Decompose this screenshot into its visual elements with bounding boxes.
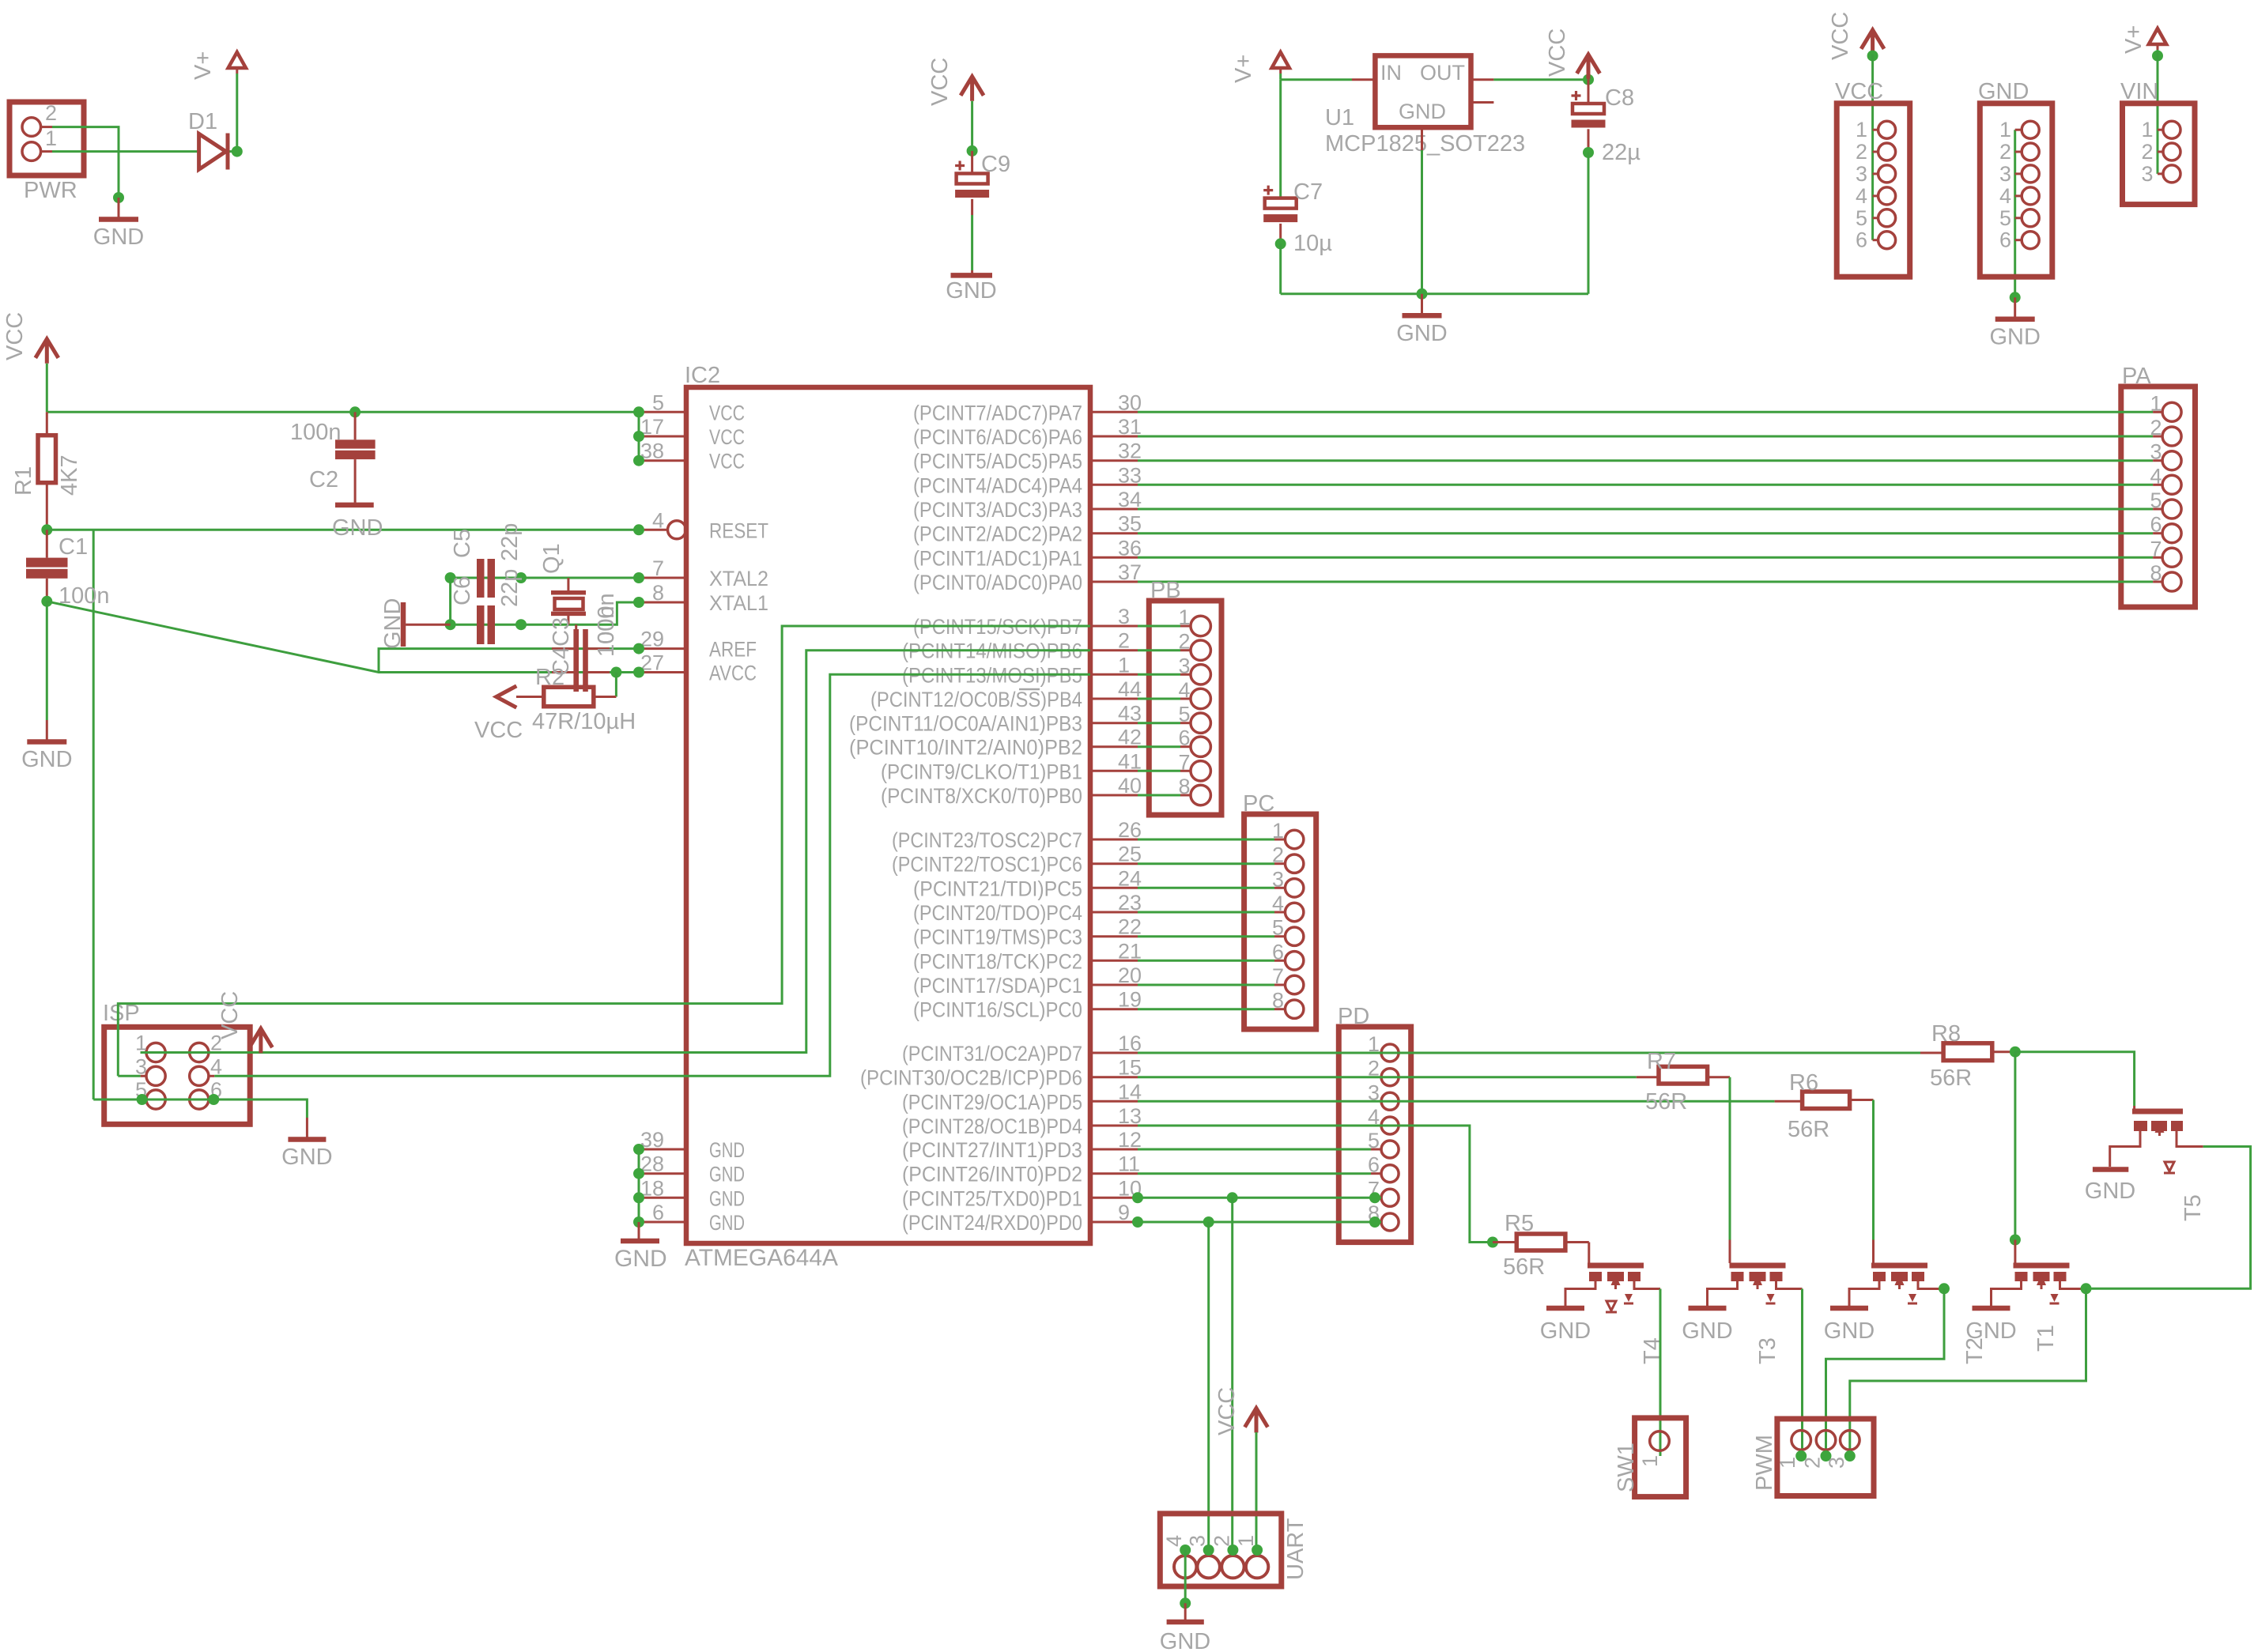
pin 4 RESET xyxy=(639,529,667,531)
ground xyxy=(2093,1167,2128,1172)
svg-text:ATMEGA644A: ATMEGA644A xyxy=(685,1245,838,1271)
svg-text:PA: PA xyxy=(2122,364,2151,389)
connector PC header xyxy=(1244,814,1316,1029)
overline SS xyxy=(1019,688,1040,691)
svg-text:5: 5 xyxy=(652,390,664,414)
svg-text:5: 5 xyxy=(1999,206,2011,230)
junction xyxy=(967,145,978,157)
svg-text:(PCINT20/TDO)PC4: (PCINT20/TDO)PC4 xyxy=(913,901,1082,925)
svg-text:GND: GND xyxy=(1682,1318,1732,1344)
pin 14 PD5 xyxy=(1090,1100,1138,1103)
svg-text:R5: R5 xyxy=(1505,1211,1534,1236)
pin 18 GND xyxy=(639,1197,686,1199)
junction xyxy=(1369,1192,1380,1203)
junction xyxy=(445,619,456,630)
svg-text:5: 5 xyxy=(1856,206,1867,230)
junction xyxy=(1939,1283,1950,1294)
svg-text:(PCINT17/SDA)PC1: (PCINT17/SDA)PC1 xyxy=(913,974,1082,998)
wire xyxy=(1871,55,1874,240)
supply VCC at UART xyxy=(1245,1409,1268,1433)
wire VCC down xyxy=(46,364,48,413)
supply VCC xyxy=(1577,55,1600,79)
svg-text:2: 2 xyxy=(1801,1457,1825,1469)
svg-text:56R: 56R xyxy=(1645,1089,1687,1115)
junction xyxy=(1583,74,1594,85)
svg-text:GND: GND xyxy=(281,1145,332,1170)
svg-text:(PCINT7/ADC7)PA7: (PCINT7/ADC7)PA7 xyxy=(913,401,1082,424)
transistor T4 xyxy=(1588,1263,1644,1269)
pin 10 PD1 xyxy=(1090,1197,1138,1199)
svg-text:IN: IN xyxy=(1380,61,1402,85)
svg-text:100n: 100n xyxy=(594,605,619,657)
svg-text:PC: PC xyxy=(1243,791,1274,817)
pin U1 TAB xyxy=(1471,101,1494,104)
svg-text:AREF: AREF xyxy=(709,638,757,662)
wire C5 C6 gnd link xyxy=(449,578,451,624)
crystal Q1 xyxy=(567,578,569,590)
wire ISP MISO to PB6 xyxy=(141,651,1090,1053)
svg-text:(PCINT6/ADC6)PA6: (PCINT6/ADC6)PA6 xyxy=(913,425,1082,449)
pin 24 PC5 xyxy=(1090,887,1138,889)
svg-text:(PCINT8/XCK0/T0)PB0: (PCINT8/XCK0/T0)PB0 xyxy=(881,784,1082,808)
svg-text:GND: GND xyxy=(1978,79,2029,104)
pin 41 PB1 xyxy=(1090,770,1138,772)
wire AGND diagonal xyxy=(47,602,639,673)
svg-text:(PCINT5/ADC5)PA5: (PCINT5/ADC5)PA5 xyxy=(913,450,1082,473)
svg-text:3: 3 xyxy=(1999,162,2011,186)
wire T1 to PWM3 xyxy=(1850,1288,2086,1456)
pin 20 PC1 xyxy=(1090,984,1138,986)
pin 2 PB6 xyxy=(1090,649,1138,651)
pin 34 PA3 xyxy=(1090,508,1138,511)
svg-text:PWR: PWR xyxy=(24,178,77,203)
wire PWR pin2 to GND xyxy=(52,127,119,198)
junction xyxy=(515,619,527,630)
resistor R5 56R xyxy=(1493,1241,1516,1243)
wires PD net xyxy=(1138,1148,1371,1151)
pin 3 PB7 xyxy=(1090,625,1138,628)
connector PWR xyxy=(9,102,84,175)
connector VIN header xyxy=(2123,104,2195,205)
capacitor C9 xyxy=(971,151,973,174)
junction xyxy=(633,1144,644,1155)
junction xyxy=(633,524,644,535)
ground xyxy=(638,1222,640,1239)
pin 8 XTAL1 xyxy=(639,602,686,604)
svg-text:4: 4 xyxy=(1999,184,2011,208)
wire R7 to T3 gate xyxy=(1729,1077,1731,1240)
junction xyxy=(1417,289,1428,300)
pin U1 GND wire xyxy=(1421,127,1423,150)
wire T4 to SW1 xyxy=(1659,1289,1662,1457)
wire C1 to GND xyxy=(46,602,48,720)
ground xyxy=(1689,1306,1727,1311)
svg-text:V+: V+ xyxy=(1231,55,1256,83)
svg-text:(PCINT3/ADC3)PA3: (PCINT3/ADC3)PA3 xyxy=(913,498,1082,522)
svg-text:1: 1 xyxy=(1118,653,1130,677)
svg-text:(PCINT25/TXD0)PD1: (PCINT25/TXD0)PD1 xyxy=(902,1186,1082,1210)
junction xyxy=(2010,1235,2021,1246)
svg-text:(PCINT22/TOSC1)PC6: (PCINT22/TOSC1)PC6 xyxy=(892,853,1082,877)
svg-text:1: 1 xyxy=(1776,1457,1799,1469)
svg-text:VCC: VCC xyxy=(1828,12,1853,60)
transistor T5 xyxy=(2132,1109,2183,1115)
svg-text:VCC: VCC xyxy=(709,425,745,449)
svg-text:56R: 56R xyxy=(1788,1117,1829,1142)
pin 23 PC4 xyxy=(1090,911,1138,914)
supply GND symbol wire xyxy=(2014,130,2016,297)
svg-text:GND: GND xyxy=(1540,1318,1591,1344)
svg-text:4K7: 4K7 xyxy=(57,454,82,496)
wire PD6 to R7 xyxy=(1138,1076,1637,1078)
svg-text:GND: GND xyxy=(709,1138,745,1162)
svg-text:GND: GND xyxy=(1396,321,1447,346)
capacitor C1 xyxy=(46,530,48,557)
svg-text:(PCINT24/RXD0)PD0: (PCINT24/RXD0)PD0 xyxy=(902,1211,1082,1235)
svg-text:RESET: RESET xyxy=(709,519,768,542)
svg-text:UART: UART xyxy=(1283,1518,1308,1580)
pin 11 PD2 xyxy=(1090,1172,1138,1175)
pin 30 PA7 xyxy=(1090,411,1138,413)
svg-text:1: 1 xyxy=(1234,1535,1258,1547)
wire PD1 TXD xyxy=(1138,1197,1381,1199)
svg-text:GND: GND xyxy=(614,1246,667,1272)
capacitor C8 xyxy=(1588,80,1590,104)
wire XTAL1 jog xyxy=(451,602,639,624)
ground xyxy=(971,270,973,273)
svg-text:(PCINT27/INT1)PD3: (PCINT27/INT1)PD3 xyxy=(902,1138,1082,1162)
supply V+ xyxy=(2149,28,2166,44)
wire ISP MOSI to PB5 xyxy=(214,674,1090,1076)
capacitor C5 xyxy=(477,559,485,598)
ground xyxy=(1546,1306,1584,1311)
svg-text:VCC: VCC xyxy=(474,718,523,743)
svg-text:(PCINT29/OC1A)PD5: (PCINT29/OC1A)PD5 xyxy=(902,1090,1082,1114)
supply VCC xyxy=(961,77,984,101)
capacitor C6 xyxy=(477,605,485,644)
svg-text:9: 9 xyxy=(1118,1201,1130,1224)
ground xyxy=(118,198,120,217)
pin 17 VCC xyxy=(639,436,686,438)
svg-text:GND: GND xyxy=(1160,1629,1210,1652)
svg-text:VCC: VCC xyxy=(1214,1387,1240,1435)
svg-text:8: 8 xyxy=(652,581,664,605)
svg-text:(PCINT2/ADC2)PA2: (PCINT2/ADC2)PA2 xyxy=(913,522,1082,546)
svg-text:GND: GND xyxy=(2085,1179,2135,1204)
resistor R8 56R xyxy=(1943,1043,1992,1061)
pin 1 PB5 xyxy=(1090,673,1138,676)
pin 27 AVCC xyxy=(639,671,686,673)
pin U1 OUT xyxy=(1471,78,1494,81)
svg-text:IC2: IC2 xyxy=(685,363,720,388)
wire AREF xyxy=(379,649,639,673)
pin 35 PA2 xyxy=(1090,532,1138,534)
svg-text:100n: 100n xyxy=(290,420,342,445)
supply VCC at ISP xyxy=(249,1028,272,1053)
junction xyxy=(1180,1545,1191,1556)
svg-text:(PCINT11/OC0A/AIN1)PB3: (PCINT11/OC0A/AIN1)PB3 xyxy=(849,712,1082,736)
pin 36 PA1 xyxy=(1090,556,1138,559)
pin 43 PB3 xyxy=(1090,722,1138,724)
wires PA net xyxy=(1138,411,2153,413)
wire OUT to VCC xyxy=(1493,78,1588,81)
connector PD header xyxy=(1338,1027,1410,1243)
junction xyxy=(1795,1450,1807,1462)
svg-text:4: 4 xyxy=(1162,1535,1186,1547)
junction xyxy=(1867,51,1878,62)
wire ISP SCK to PB7 xyxy=(118,626,1090,1076)
wire RXD to UART xyxy=(1207,1222,1210,1550)
svg-text:22µ: 22µ xyxy=(1602,140,1640,165)
svg-text:1: 1 xyxy=(45,126,57,150)
junction xyxy=(1583,147,1594,158)
svg-text:C5: C5 xyxy=(450,529,475,558)
svg-text:3: 3 xyxy=(1856,162,1867,186)
svg-text:7: 7 xyxy=(652,556,664,580)
resistor R7 56R xyxy=(1659,1066,1708,1084)
pin 7 XTAL2 xyxy=(639,577,686,579)
junction xyxy=(610,667,621,678)
svg-text:(PCINT18/TCK)PC2: (PCINT18/TCK)PC2 xyxy=(913,949,1082,973)
wires PC net xyxy=(1138,839,1274,841)
regulator U1 xyxy=(1375,55,1471,127)
junction xyxy=(1227,1192,1238,1203)
svg-text:GND: GND xyxy=(709,1186,745,1210)
ground xyxy=(2014,297,2016,317)
ground xyxy=(306,1118,308,1137)
junction xyxy=(349,406,361,417)
junction xyxy=(2081,1283,2092,1294)
wire bottom GND rail xyxy=(1281,292,1588,295)
svg-text:VCC: VCC xyxy=(709,450,745,473)
svg-text:MCP1825_SOT223: MCP1825_SOT223 xyxy=(1325,131,1525,157)
capacitor C2 xyxy=(354,412,357,439)
svg-text:GND: GND xyxy=(21,747,72,772)
svg-text:2: 2 xyxy=(1856,140,1867,164)
svg-text:(PCINT26/INT0)PD2: (PCINT26/INT0)PD2 xyxy=(902,1163,1082,1186)
pin 42 PB2 xyxy=(1090,745,1138,748)
svg-text:47R/10µH: 47R/10µH xyxy=(532,709,636,734)
svg-text:(PCINT23/TOSC2)PC7: (PCINT23/TOSC2)PC7 xyxy=(892,828,1082,852)
svg-text:VCC: VCC xyxy=(709,401,745,424)
svg-text:VCC: VCC xyxy=(217,991,243,1039)
junction xyxy=(633,1216,644,1228)
wire V+ to IN and C7 xyxy=(1279,74,1282,80)
wire xyxy=(971,215,973,270)
svg-text:(PCINT0/ADC0)PA0: (PCINT0/ADC0)PA0 xyxy=(913,571,1082,594)
svg-text:1: 1 xyxy=(1856,118,1867,141)
pin 15 PD6 xyxy=(1090,1076,1138,1078)
svg-text:C6: C6 xyxy=(450,576,475,605)
svg-text:T3: T3 xyxy=(1755,1337,1780,1364)
ground rotated xyxy=(406,624,451,626)
junction xyxy=(113,192,124,203)
svg-text:56R: 56R xyxy=(1503,1254,1545,1280)
svg-text:PD: PD xyxy=(1338,1004,1369,1029)
wire XTAL2 net xyxy=(451,577,639,579)
svg-text:6: 6 xyxy=(1999,228,2011,252)
junction xyxy=(1821,1450,1832,1462)
svg-text:6: 6 xyxy=(652,1201,664,1224)
wire D1 cathode to V+ xyxy=(230,150,237,153)
wire R6 to T2 gate xyxy=(1872,1100,1875,1240)
pin 22 PC3 xyxy=(1090,935,1138,937)
junction xyxy=(1369,1216,1380,1228)
resistor R1 xyxy=(46,412,48,435)
svg-text:T5: T5 xyxy=(2180,1194,2206,1221)
junction xyxy=(1132,1192,1143,1203)
transistor T2 xyxy=(1871,1263,1927,1269)
svg-text:AVCC: AVCC xyxy=(709,662,757,685)
wires PB net xyxy=(1138,625,1180,628)
connector PB header xyxy=(1149,601,1221,815)
svg-text:XTAL2: XTAL2 xyxy=(709,567,768,590)
pin 26 PC7 xyxy=(1090,839,1138,841)
svg-text:(PCINT19/TMS)PC3: (PCINT19/TMS)PC3 xyxy=(913,926,1082,949)
svg-text:VCC: VCC xyxy=(1545,28,1570,77)
svg-text:PWM: PWM xyxy=(1752,1435,1777,1491)
connector ISP xyxy=(104,1027,251,1124)
wire GND pins link xyxy=(638,1149,640,1222)
svg-text:V+: V+ xyxy=(2121,25,2146,54)
svg-text:1: 1 xyxy=(2141,118,2153,141)
svg-text:1: 1 xyxy=(1638,1455,1662,1467)
wire ISP GND row xyxy=(93,1099,307,1118)
svg-text:GND: GND xyxy=(1399,100,1446,123)
svg-text:GND: GND xyxy=(380,598,406,649)
svg-text:(PCINT10/INT2/AIN0)PB2: (PCINT10/INT2/AIN0)PB2 xyxy=(849,736,1082,760)
pin 38 VCC xyxy=(639,459,686,462)
wire xyxy=(971,101,973,151)
junction xyxy=(1275,238,1286,249)
pin 29 AREF xyxy=(639,647,686,650)
connector UART xyxy=(1160,1514,1282,1586)
pin 37 PA0 xyxy=(1090,581,1138,583)
svg-text:T1: T1 xyxy=(2033,1325,2059,1352)
junction xyxy=(633,643,644,654)
svg-text:OUT: OUT xyxy=(1420,61,1465,85)
capacitor C3 xyxy=(573,629,579,692)
svg-text:GND: GND xyxy=(332,515,383,541)
svg-text:3: 3 xyxy=(1118,605,1130,628)
pin 28 GND xyxy=(639,1172,686,1175)
ground xyxy=(46,720,48,740)
connector VCC header xyxy=(1837,104,1910,277)
pin 13 PD4 xyxy=(1090,1125,1138,1127)
wire VCC pins link xyxy=(638,412,640,460)
supply VCC xyxy=(1861,30,1884,55)
svg-text:(PCINT28/OC1B)PD4: (PCINT28/OC1B)PD4 xyxy=(902,1115,1082,1138)
wire PD7 to R8 xyxy=(1138,1052,1920,1054)
svg-text:V+: V+ xyxy=(191,51,216,80)
pin 21 PC2 xyxy=(1090,960,1138,962)
pin 40 PB0 xyxy=(1090,794,1138,797)
transistor T1 xyxy=(2014,1263,2070,1269)
svg-text:(PCINT4/ADC4)PA4: (PCINT4/ADC4)PA4 xyxy=(913,473,1082,497)
wire PD5 to R6 xyxy=(1138,1100,1775,1103)
wire R8 to T5 gate xyxy=(2015,1052,2135,1106)
junction xyxy=(445,572,456,583)
svg-text:PB: PB xyxy=(1150,578,1181,603)
wire T5 drain loop xyxy=(2086,1147,2251,1289)
IC U-block IC2 ATMEGA644A xyxy=(686,387,1090,1243)
wire TXD to UART xyxy=(1231,1198,1233,1550)
junction node RESET xyxy=(41,524,52,535)
svg-text:C9: C9 xyxy=(981,152,1010,177)
wire AVCC to R2 xyxy=(615,673,617,697)
ground xyxy=(1973,1306,2010,1311)
svg-text:SW1: SW1 xyxy=(1614,1443,1639,1492)
svg-text:10µ: 10µ xyxy=(1293,231,1332,256)
svg-text:R6: R6 xyxy=(1789,1070,1818,1096)
svg-text:VCC: VCC xyxy=(2,312,28,360)
inductor R2 47R/10uH xyxy=(544,687,594,706)
junction xyxy=(137,1094,148,1105)
svg-text:(PCINT31/OC2A)PD7: (PCINT31/OC2A)PD7 xyxy=(902,1042,1082,1066)
resistor R6 56R xyxy=(1803,1092,1850,1109)
junction xyxy=(633,597,644,608)
ground xyxy=(1184,1603,1187,1620)
wire R8 to T1 gate xyxy=(2014,1052,2016,1240)
transistor T3 xyxy=(1730,1263,1786,1269)
junction xyxy=(515,572,527,583)
junction xyxy=(41,596,52,607)
pin 9 PD0 xyxy=(1090,1221,1138,1224)
junction xyxy=(633,667,644,678)
svg-text:D1: D1 xyxy=(188,109,217,134)
svg-text:R7: R7 xyxy=(1647,1049,1676,1074)
svg-text:22p: 22p xyxy=(497,569,523,607)
svg-text:C8: C8 xyxy=(1605,85,1634,111)
junction xyxy=(633,1192,644,1203)
junction xyxy=(208,1094,219,1105)
connector PWM xyxy=(1777,1419,1874,1496)
svg-text:11: 11 xyxy=(1118,1152,1140,1176)
svg-text:(PCINT9/CLKO/T1)PB1: (PCINT9/CLKO/T1)PB1 xyxy=(881,760,1082,783)
svg-text:C7: C7 xyxy=(1293,179,1323,205)
junction xyxy=(2010,292,2021,303)
svg-text:VCC: VCC xyxy=(927,58,953,106)
pin 32 PA5 xyxy=(1090,459,1138,462)
pin 33 PA4 xyxy=(1090,484,1138,486)
supply VCC xyxy=(36,339,59,364)
wire T2 to PWM2 xyxy=(1826,1288,1945,1456)
svg-text:R2: R2 xyxy=(535,665,564,690)
svg-text:1: 1 xyxy=(1999,118,2011,141)
svg-text:C1: C1 xyxy=(59,534,88,560)
svg-text:(PCINT16/SCL)PC0: (PCINT16/SCL)PC0 xyxy=(913,998,1082,1022)
svg-text:GND: GND xyxy=(1989,324,2040,349)
wire RESET to ISP xyxy=(93,530,95,1099)
svg-text:2: 2 xyxy=(1210,1535,1233,1547)
svg-text:VIN: VIN xyxy=(2120,79,2158,104)
svg-text:2: 2 xyxy=(45,101,57,125)
svg-text:2: 2 xyxy=(1999,140,2011,164)
pin 39 GND xyxy=(639,1148,686,1151)
svg-text:GND: GND xyxy=(709,1163,745,1186)
junction xyxy=(633,455,644,466)
wire RESET net xyxy=(47,529,639,531)
pin 6 GND xyxy=(639,1221,686,1224)
svg-text:3: 3 xyxy=(1186,1535,1210,1547)
wire xyxy=(1255,1432,1258,1550)
wire UART pin4 to GND xyxy=(1184,1550,1187,1603)
svg-text:(PCINT12/OC0B/SS)PB4: (PCINT12/OC0B/SS)PB4 xyxy=(870,688,1082,711)
supply V+ xyxy=(1272,52,1289,68)
svg-text:GND: GND xyxy=(1965,1318,2016,1344)
junction xyxy=(232,146,243,157)
pin 19 PC0 xyxy=(1090,1008,1138,1010)
